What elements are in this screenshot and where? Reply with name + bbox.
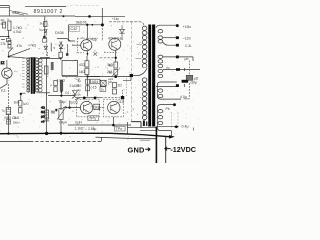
transformer T1 right winding	[35, 58, 38, 92]
bar bottom bracket marks	[143, 120, 145, 126]
capacitor C11	[6, 108, 10, 115]
diode D24 small	[94, 52, 98, 56]
svg-text:Pb: Pb	[166, 107, 170, 111]
resistor R26a on chain	[86, 79, 90, 84]
wire base bus into Q4	[63, 107, 80, 109]
12VDC vertical line	[165, 136, 167, 163]
resistor R44	[113, 89, 117, 94]
wire small bottom	[57, 39, 71, 42]
svg-text:CμH: CμH	[75, 121, 82, 125]
capacitor C14 bottom	[43, 39, 47, 43]
resistor R45 boxed label	[94, 104, 100, 109]
wire x44.8 chain vertical	[44, 17, 46, 36]
potentiometer RV1	[59, 109, 63, 120]
svg-text:+15v: +15v	[183, 24, 192, 29]
wire x69.6 down	[69, 101, 71, 108]
svg-text:1kΩ+: 1kΩ+	[13, 121, 20, 125]
capacitor C21 hatched	[51, 62, 54, 70]
diode D22 zener	[59, 42, 63, 49]
wire bus y76.8 long	[88, 76, 132, 78]
svg-text:+C43μ: +C43μ	[86, 38, 97, 42]
transistor Q4	[80, 101, 92, 113]
svg-text:27k: 27k	[1, 42, 7, 46]
wire loop column bottom	[140, 130, 157, 132]
dashed vertical x189.5 lower	[189, 83, 191, 98]
junction dot E2	[60, 95, 62, 97]
wire inner y126.7	[157, 126, 174, 128]
relay K1 box top-left	[0, 6, 9, 16]
wire vertical x67.5	[67, 44, 69, 54]
wire to transformer top	[9, 57, 28, 59]
svg-text:5kΩ76: 5kΩ76	[76, 21, 87, 25]
svg-text:C4μ: C4μ	[59, 100, 65, 104]
connector left pin loops	[142, 26, 147, 120]
loop column gap mask	[140, 68, 148, 78]
svg-text:2μ: 2μ	[78, 79, 82, 83]
rounded dashed shield corner	[109, 22, 144, 26]
edge connector bar right strip	[152, 25, 155, 127]
wire segment left	[40, 57, 50, 59]
wire y140.3 right short	[140, 139, 150, 141]
box C428 outline	[69, 25, 76, 41]
label C428	[70, 26, 80, 31]
junction dot A2	[88, 15, 91, 18]
wire x8 lower	[7, 84, 9, 110]
svg-text:TPο: TPο	[116, 127, 123, 131]
svg-text:7μCΩ: 7μCΩ	[70, 101, 79, 105]
wire left low	[0, 31, 9, 37]
svg-text:μb: μb	[185, 57, 189, 61]
wire below square	[123, 77, 131, 80]
wire Q2 collector	[86, 25, 88, 40]
wire bus y125	[68, 124, 131, 126]
svg-text:47k: 47k	[17, 44, 23, 48]
corner x102	[101, 137, 103, 141]
svg-text:47Ω: 47Ω	[79, 63, 86, 67]
wire x61 column	[60, 100, 62, 110]
wire y141.5 dashed	[0, 140, 30, 142]
transistor Q1	[2, 68, 12, 78]
capacitor C12 column x45	[44, 22, 47, 27]
wire dash row	[28, 57, 37, 59]
svg-text:C42: C42	[71, 27, 78, 31]
resistor R43	[113, 83, 117, 88]
svg-text:-12VDC: -12VDC	[170, 145, 196, 154]
terminal square +12V	[176, 36, 179, 39]
wire vertical from bus A	[101, 8, 103, 25]
svg-text:4.7kΩ: 4.7kΩ	[13, 30, 22, 34]
svg-text:2k2: 2k2	[107, 70, 112, 74]
resistor R31 lower-left pair	[54, 81, 58, 86]
svg-text:3kΩ: 3kΩ	[107, 63, 113, 67]
junction dot H2	[115, 57, 117, 59]
svg-text:3k: 3k	[40, 22, 44, 26]
resistor R11 left column	[3, 22, 6, 28]
resistor R42 mid stack	[114, 70, 118, 76]
wire Q3 collector	[101, 25, 103, 41]
svg-text:+5v: +5v	[118, 37, 124, 41]
resistor R32 hatched	[60, 80, 63, 91]
terminal square y85.5	[176, 84, 179, 87]
blob at x67 bottom	[66, 53, 68, 56]
svg-text:1Z: 1Z	[1, 61, 5, 65]
wire vertical x51	[50, 43, 52, 52]
svg-text:8911007 2: 8911007 2	[34, 9, 64, 15]
svg-text:Ω0μ: Ω0μ	[191, 81, 197, 85]
wire pin41 to y45	[163, 42, 176, 45]
svg-text:2kV: 2kV	[13, 10, 20, 15]
vertical right edge x190 to corner	[184, 98, 190, 100]
wire T1 top tap	[39, 57, 63, 59]
shield box B1 rounded	[157, 82, 181, 99]
resistor R24 stack	[85, 68, 89, 74]
wire dashes x126.6	[126, 78, 128, 96]
label TP2	[88, 116, 99, 121]
svg-text:1.7kΩ: 1.7kΩ	[13, 26, 22, 30]
wire +15V rail	[156, 25, 176, 27]
junction dot A1	[63, 15, 65, 17]
svg-text:1kΩ: 1kΩ	[79, 70, 85, 74]
GND drop thick vertical	[155, 127, 157, 164]
junction dot P	[173, 103, 176, 106]
crystal Y1 box with X	[100, 80, 106, 86]
wire emitter down	[0, 78, 7, 88]
wire dashes x122	[121, 90, 123, 96]
svg-text:1kβ: 1kβ	[94, 106, 100, 110]
wire bus y76.5	[62, 75, 100, 77]
wire x131.5 long vertical	[131, 22, 133, 122]
transformer T1 core	[31, 57, 33, 94]
junction dot G2	[91, 24, 93, 26]
diode D31 triangle	[73, 91, 78, 96]
svg-text:3μ: 3μ	[78, 88, 82, 92]
wire dashes below D21	[47, 52, 49, 58]
svg-text:ΔΩ4: ΔΩ4	[92, 80, 99, 84]
wire diagonal up-right	[9, 49, 30, 57]
transformer T1 aux winding	[39, 59, 42, 92]
diode D40 under shield corner	[120, 25, 125, 38]
svg-text:~12v: ~12v	[183, 35, 192, 40]
trimmer C15	[7, 120, 11, 124]
label TP3	[115, 126, 126, 131]
blob y81 label	[182, 80, 189, 83]
resistor R26b on chain	[86, 86, 90, 91]
wire + resistor R21 below zener	[60, 49, 62, 52]
svg-text:47kΩ7: 47kΩ7	[108, 37, 118, 41]
strike through R42	[112, 68, 120, 76]
dashed box around Q2	[78, 38, 99, 53]
svg-text:1kΩ: 1kΩ	[14, 116, 20, 120]
dashed wires under Q3	[104, 52, 118, 54]
wire diagonal into node	[9, 48, 13, 57]
resistor R41 mid stack	[114, 62, 118, 68]
wire y69.6 long	[163, 69, 200, 71]
svg-text:4k7: 4k7	[1, 22, 6, 26]
junction dot C	[20, 93, 22, 95]
svg-text:GND: GND	[128, 146, 145, 155]
box U2	[62, 60, 78, 75]
svg-text:1.1kΩˉ: 1.1kΩˉ	[75, 127, 85, 131]
svg-text:αμ: αμ	[166, 66, 170, 70]
junction dot L	[112, 124, 115, 127]
svg-text:C-8-: C-8-	[185, 44, 192, 48]
transistor Q2 top	[81, 40, 92, 51]
svg-text:2Ω: 2Ω	[118, 84, 123, 88]
transistor Q5	[108, 101, 120, 113]
junction dot F1	[83, 97, 86, 100]
svg-text:2.5kμ: 2.5kμ	[88, 127, 96, 131]
transformer T1 left winding	[28, 58, 30, 93]
svg-text:(-15: (-15	[91, 86, 97, 90]
wire between boxes	[99, 107, 103, 109]
junction dot left	[8, 36, 10, 38]
wire y86.6	[156, 86, 176, 88]
junction dot K	[68, 106, 70, 108]
svg-text:TPή: TPή	[89, 117, 96, 121]
svg-text:C41ĺ: C41ĺ	[117, 99, 125, 104]
junction dot G1	[86, 24, 88, 26]
edge connector bar left strip	[148, 25, 151, 127]
junction dot Q2e	[87, 53, 89, 55]
svg-text:C4: C4	[65, 91, 69, 95]
terminal dot +15V	[176, 24, 179, 27]
wire top border segment	[0, 6, 66, 7]
capacitor C13 small	[6, 38, 10, 41]
svg-text:1k: 1k	[101, 88, 105, 92]
wire stubs from loops	[136, 44, 142, 58]
svg-text:7μ: 7μ	[2, 109, 6, 113]
shield box B2 rounded	[157, 105, 174, 137]
resistor R14 column	[19, 101, 22, 107]
junction blob J	[121, 96, 124, 99]
junction dot B	[8, 56, 10, 58]
wire bus y24.7	[69, 24, 104, 26]
wire T1 bottom tap	[38, 92, 51, 94]
resistor R15 column	[19, 108, 22, 114]
diode D21 cluster	[44, 46, 48, 49]
boxed label A04	[91, 79, 100, 84]
svg-text:μ: μ	[8, 17, 10, 21]
svg-text:+14v: +14v	[112, 17, 119, 21]
svg-text:4 0μ: 4 0μ	[180, 95, 187, 99]
tick y69.6	[184, 68, 186, 71]
tick y85.5	[183, 84, 185, 87]
bus y138 secondary	[96, 137, 156, 139]
resistor R12 left column	[8, 21, 11, 31]
wire Q5 emitter to dot	[112, 117, 114, 125]
connector J2 small box	[186, 75, 193, 80]
junction dot E	[60, 91, 62, 93]
GND arrow	[145, 148, 150, 151]
bracket mark 2	[146, 122, 147, 127]
tick column left of transformer	[22, 59, 25, 88]
arrow blob bus end	[169, 135, 175, 139]
wire to bus	[8, 115, 10, 135]
junction dot H	[101, 23, 104, 26]
svg-text:μ0: μ0	[41, 115, 45, 119]
svg-text:2.2kΩ: 2.2kΩ	[57, 79, 66, 83]
dashed box around Q4	[77, 99, 100, 117]
junction dot M1	[7, 132, 9, 134]
wire R24 to bus	[86, 56, 88, 61]
wire bus y97.6 with dots	[75, 98, 101, 100]
wire x46.6 column	[46, 93, 48, 134]
junction dot F2	[94, 97, 97, 100]
wire y127.6 segment	[127, 127, 157, 129]
svg-text:1k: 1k	[78, 93, 82, 97]
cross mark above zener	[60, 42, 63, 44]
wire sloped pair from relay	[9, 11, 28, 16]
svg-text:+0: +0	[41, 120, 45, 124]
svg-text:C4μ4: C4μ4	[59, 121, 67, 125]
svg-text:1μΩ: 1μΩ	[23, 102, 29, 106]
svg-text:D438: D438	[55, 31, 64, 35]
junction dot M3	[60, 132, 63, 135]
node bus A horizontal	[0, 15, 125, 17]
wire stubs bottom left	[1, 37, 9, 40]
terminal square y57	[176, 56, 179, 59]
resistor R22	[44, 66, 48, 74]
connector right pads	[158, 30, 163, 125]
terminal square mid	[130, 74, 133, 77]
pin loop wire to square	[133, 68, 147, 75]
svg-text:Ω+: Ω+	[40, 28, 44, 32]
svg-text:1k0: 1k0	[14, 101, 19, 105]
wire vertical x46.5	[46, 30, 48, 58]
main bus y134 thick	[0, 133, 169, 136]
wire y121.5 segment	[131, 122, 141, 128]
wire dashed verticals above bottom	[172, 112, 179, 129]
dashed vertical x189.5 upper	[189, 61, 191, 76]
resistor R33 hatched	[45, 110, 49, 119]
12VDC arrow	[165, 147, 171, 151]
trimmer top tick	[44, 120, 49, 122]
wire tick	[21, 93, 26, 100]
terminal blob x44	[43, 36, 45, 38]
wire x127.5 vertical	[127, 122, 129, 134]
blob y69.6	[176, 68, 180, 71]
svg-text:μk: μk	[109, 80, 113, 84]
wire Q3 emitter down	[115, 50, 117, 62]
junction diamond Q	[174, 125, 179, 128]
junction dot D	[86, 75, 88, 77]
diode D12 column x45	[44, 30, 47, 33]
junction dot M2	[45, 132, 48, 135]
dashed box around Q5	[103, 99, 123, 117]
svg-text:+7kΩ: +7kΩ	[28, 44, 37, 48]
capacitor C47 under crystal	[100, 87, 106, 92]
wire dashed y97.6	[101, 97, 120, 99]
resistor R13 with lead	[8, 41, 11, 45]
transistor Q3 top	[109, 38, 121, 50]
svg-text:0.4μ: 0.4μ	[182, 125, 189, 129]
wire x87.5 chain	[87, 77, 89, 97]
wire bus y95.5	[48, 96, 76, 99]
resistor R23 stack	[85, 61, 89, 67]
wire +12V rail	[163, 37, 176, 39]
dash x193	[192, 128, 194, 131]
wire y57 rail	[163, 57, 193, 61]
junction dot I	[114, 75, 117, 78]
terminal square y45	[176, 44, 179, 47]
